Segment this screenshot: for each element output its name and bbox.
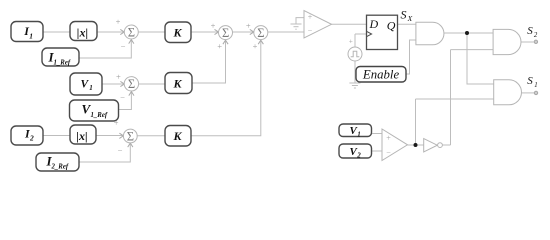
svg-text:−: − [118, 145, 123, 155]
svg-text:−: − [120, 93, 125, 103]
svg-text:V: V [81, 79, 90, 91]
svg-text:D: D [369, 17, 379, 31]
svg-text:1_Ref: 1_Ref [91, 112, 108, 119]
svg-text:K: K [173, 26, 183, 40]
svg-text:2: 2 [534, 32, 538, 39]
svg-text:Σ: Σ [128, 25, 135, 39]
svg-text:Σ: Σ [257, 26, 264, 40]
svg-text:Enable: Enable [362, 68, 400, 82]
svg-text:K: K [173, 129, 183, 143]
svg-text:+: + [116, 17, 121, 27]
svg-text:1: 1 [89, 84, 93, 92]
svg-text:+: + [308, 13, 313, 22]
svg-text:+: + [386, 134, 391, 143]
svg-text:|x|: |x| [77, 25, 88, 39]
svg-text:+: + [211, 21, 216, 31]
svg-text:K: K [173, 77, 183, 91]
svg-text:−: − [121, 41, 126, 51]
svg-text:2_Ref: 2_Ref [51, 164, 69, 171]
svg-text:Σ: Σ [127, 129, 134, 143]
svg-text:1_Ref: 1_Ref [54, 59, 71, 66]
svg-text:1: 1 [357, 131, 361, 139]
svg-text:2: 2 [29, 133, 34, 142]
svg-text:Q: Q [387, 19, 396, 33]
svg-text:+: + [217, 41, 222, 51]
svg-text:S: S [527, 25, 533, 37]
svg-text:1: 1 [534, 82, 537, 89]
svg-text:X: X [407, 14, 413, 23]
svg-text:+: + [349, 38, 353, 46]
svg-text:Σ: Σ [128, 77, 135, 91]
svg-text:−: − [386, 149, 391, 158]
svg-text:+: + [116, 72, 121, 82]
svg-text:+: + [253, 41, 258, 51]
svg-text:S: S [401, 8, 407, 22]
svg-text:|x|: |x| [76, 129, 87, 143]
svg-text:2: 2 [356, 152, 361, 160]
svg-text:+: + [246, 21, 251, 31]
svg-text:−: − [308, 27, 313, 36]
svg-text:Σ: Σ [222, 26, 229, 40]
svg-text:S: S [527, 75, 533, 87]
svg-text:1: 1 [29, 31, 33, 40]
